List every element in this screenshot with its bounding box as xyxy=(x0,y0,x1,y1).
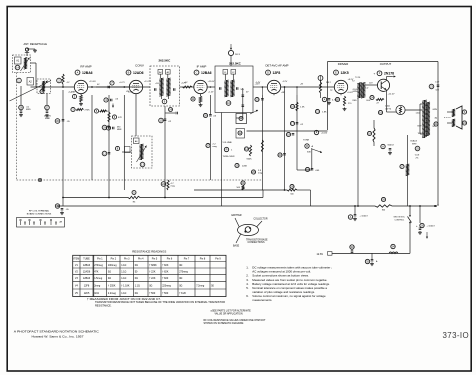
svg-text:+0.7V: +0.7V xyxy=(119,82,125,84)
wire from antenna line junction xyxy=(96,86,106,88)
trimmer box A2 xyxy=(27,78,34,86)
svg-text:7.2meg: 7.2meg xyxy=(196,284,205,287)
collector wire down xyxy=(386,90,388,112)
svg-text:1.1Ω: 1.1Ω xyxy=(121,264,126,267)
rod antenna dashed box xyxy=(13,55,31,73)
svg-text:12.6V: 12.6V xyxy=(317,253,324,256)
svg-text:5.: 5. xyxy=(246,286,249,290)
svg-text:Pin 2: Pin 2 xyxy=(111,258,117,261)
oscillator feedback resistor on B- line xyxy=(128,196,140,198)
A line terminal dot and x xyxy=(434,205,436,207)
item 13 circled xyxy=(140,162,145,167)
svg-text:12F8: 12F8 xyxy=(84,284,90,287)
oscillator coil winding xyxy=(141,144,143,160)
svg-text:TURN-OVER: TURN-OVER xyxy=(223,156,235,158)
item 8 circled small box xyxy=(115,146,119,150)
svg-text:+1.2V: +1.2V xyxy=(208,92,214,94)
tube V2 envelope xyxy=(129,80,142,93)
wire V1 plate to T1 xyxy=(87,86,150,88)
wire T1 secondary to V3 grid xyxy=(180,86,195,88)
svg-text:+11.6V: +11.6V xyxy=(89,81,96,83)
svg-text:Pin 1: Pin 1 xyxy=(97,258,103,261)
svg-text:1.1Ω: 1.1Ω xyxy=(121,277,126,280)
antenna tuning coil with slug arrow xyxy=(25,58,27,70)
wire x297 stub xyxy=(296,87,298,95)
svg-text:+12V: +12V xyxy=(181,83,187,85)
svg-text:VALUE OR APPLICATION: VALUE OR APPLICATION xyxy=(215,313,243,316)
RF coil terminal board box xyxy=(17,218,65,228)
svg-text:0Ω: 0Ω xyxy=(179,277,182,280)
svg-text:SW ON VOL: SW ON VOL xyxy=(394,217,406,219)
svg-text:CONTROL: CONTROL xyxy=(395,219,406,221)
item capacitor .02 xyxy=(286,132,290,136)
svg-text:BLU: BLU xyxy=(365,88,369,90)
svg-text:TONE: TONE xyxy=(303,140,310,142)
svg-text:1.5meg: 1.5meg xyxy=(94,277,103,280)
svg-text:Pin 7: Pin 7 xyxy=(184,258,190,261)
electrolytic 26 100mf xyxy=(420,223,424,227)
tube V4 12F8 designator xyxy=(266,70,271,75)
speaker xyxy=(453,109,455,116)
svg-text:A: A xyxy=(77,70,79,74)
resistance readings table grid xyxy=(73,255,226,296)
item 6 resistor 47K xyxy=(112,115,116,119)
svg-text:1.8K: 1.8K xyxy=(322,112,327,114)
T3 left capacitor xyxy=(219,87,221,90)
driver-output enclosing wires xyxy=(328,61,439,63)
driver plate electrolytic xyxy=(314,130,318,134)
svg-text:VOLUME: VOLUME xyxy=(223,142,233,144)
svg-text:Pin 5: Pin 5 xyxy=(152,258,158,261)
tube V3 envelope xyxy=(194,80,207,93)
T1 left capacitor xyxy=(154,88,156,91)
svg-text:A: A xyxy=(350,215,352,219)
mechanical tuning diagonal link xyxy=(10,81,52,102)
test point circle above 2nd IF xyxy=(228,50,233,55)
svg-text:+12V: +12V xyxy=(255,84,261,86)
svg-text:TRANSISTOR BASE: TRANSISTOR BASE xyxy=(246,238,268,241)
ground at receptacle xyxy=(27,48,35,50)
item resistor 560K xyxy=(244,147,248,151)
svg-text:GRN: GRN xyxy=(353,91,358,93)
svg-text:1.: 1. xyxy=(246,266,249,270)
svg-text:270meg: 270meg xyxy=(179,270,188,273)
svg-text:+11.6V: +11.6V xyxy=(208,81,215,83)
svg-text:† 820: † 820 xyxy=(162,277,169,280)
svg-text:47K: 47K xyxy=(118,117,122,119)
svg-text:† 560: † 560 xyxy=(149,292,156,295)
antenna coil A1 box xyxy=(15,57,22,64)
svg-text:470K: 470K xyxy=(104,111,110,113)
svg-text:1.1Ω: 1.1Ω xyxy=(121,292,126,295)
svg-text:0Ω: 0Ω xyxy=(135,292,138,295)
item 35 bypass capacitor xyxy=(365,259,369,263)
series resistor on 190 line xyxy=(290,184,294,188)
item 10b capacitor stub xyxy=(165,112,175,114)
svg-text:IF AMP: IF AMP xyxy=(197,65,207,69)
svg-text:0Ω: 0Ω xyxy=(149,284,152,287)
T1 right capacitor xyxy=(173,88,175,91)
item 27 trimmer capacitor xyxy=(45,105,50,110)
dashed AGC vertical at left xyxy=(16,73,18,181)
svg-text:0Ω: 0Ω xyxy=(179,264,182,267)
svg-text:12K5: 12K5 xyxy=(341,71,349,75)
item 14 circled xyxy=(15,65,20,70)
AVC resistor 2.2 meg xyxy=(206,143,210,147)
tube V5 12K5 designator xyxy=(334,70,339,75)
filter choke xyxy=(400,164,404,168)
svg-text:BASE: BASE xyxy=(233,245,240,248)
item resistor 470K xyxy=(94,109,98,113)
T3 item circled xyxy=(226,101,231,106)
svg-text:0Ω: 0Ω xyxy=(135,264,138,267)
V1 cathode resistor xyxy=(72,94,76,98)
svg-text:BLACK: BLACK xyxy=(411,140,418,143)
T3 right capacitor xyxy=(236,87,238,90)
tube V2 12AD6 designator xyxy=(126,70,131,75)
svg-text:CONNECTIONS: CONNECTIONS xyxy=(248,242,265,244)
V3 screen-det feed down xyxy=(221,113,223,207)
V4 plate decoupling vertical xyxy=(284,87,286,190)
V5 cathode resistor xyxy=(335,97,339,101)
item 10 capacitor on feed xyxy=(159,118,164,123)
wire grid column xyxy=(20,86,22,105)
wire T3 to V4 grid xyxy=(253,86,268,88)
svg-text:DRIVER: DRIVER xyxy=(338,62,349,66)
A plus bus line xyxy=(57,205,375,207)
svg-text:+10mf: +10mf xyxy=(321,133,328,135)
V1 screen feed down xyxy=(62,90,64,206)
svg-text:12AD6: 12AD6 xyxy=(133,71,144,75)
capacitor C22 at right xyxy=(429,84,434,89)
item resistor 270K under V1 xyxy=(71,107,75,111)
T3 trimmer boxes xyxy=(223,70,228,75)
svg-text:A PHOTOFACT STANDARD NOTATION: A PHOTOFACT STANDARD NOTATION SCHEMATIC xyxy=(14,330,100,334)
svg-text:12BA6: 12BA6 xyxy=(82,71,93,75)
svg-text:RED: RED xyxy=(353,100,358,102)
item resistor on x262 column xyxy=(261,140,263,152)
svg-text:12BA6: 12BA6 xyxy=(201,71,212,75)
item capacitor on x284 column xyxy=(278,153,282,157)
oscillator coil dashed box xyxy=(132,136,153,168)
svg-text:262.5: 262.5 xyxy=(235,54,241,56)
tube V1 12BA6 designator xyxy=(75,70,80,75)
V4 grid leak box xyxy=(236,129,245,139)
svg-text:ANT. RECEPTACLE: ANT. RECEPTACLE xyxy=(24,42,48,46)
svg-text:2.2meg: 2.2meg xyxy=(108,292,117,295)
svg-text:Pin 6: Pin 6 xyxy=(167,258,173,261)
svg-text:D: D xyxy=(267,70,269,74)
svg-text:† 82K: † 82K xyxy=(162,264,169,267)
svg-text:12AD6: 12AD6 xyxy=(83,270,91,273)
item 28 circled with capacitor xyxy=(19,105,24,110)
svg-text:MMF: MMF xyxy=(45,118,51,120)
item 21 resistor in lower box xyxy=(241,181,245,185)
AVC vertical wire xyxy=(209,95,211,115)
wire V3 plate to T2 xyxy=(207,86,215,88)
svg-text:OUTPUT: OUTPUT xyxy=(380,62,392,66)
svg-text:† 560: † 560 xyxy=(162,292,169,295)
tube V1 envelope xyxy=(74,80,87,93)
V4 column down xyxy=(261,95,263,190)
T3 primary coil xyxy=(226,80,228,97)
item 12 capacitor xyxy=(102,151,107,156)
svg-text:MMF: MMF xyxy=(117,129,122,131)
svg-text:270meg: 270meg xyxy=(94,264,103,267)
svg-text:2meg: 2meg xyxy=(94,284,101,287)
B minus bus line xyxy=(63,197,128,199)
1st IF transformer dashed box xyxy=(150,66,180,106)
item 22 resistor 4.7 meg xyxy=(161,182,166,187)
T3 secondary coil xyxy=(232,80,234,97)
wire T2 to transistor base xyxy=(365,84,378,86)
svg-text:220K: 220K xyxy=(242,166,248,168)
tube V3 12BA6 designator xyxy=(194,70,199,75)
item capacitor .05 under V1 xyxy=(104,98,108,102)
svg-text:C: C xyxy=(196,70,198,74)
svg-text:0Ω: 0Ω xyxy=(108,277,111,280)
wire x320 stub xyxy=(320,76,322,87)
svg-text:262.5KC: 262.5KC xyxy=(159,59,172,63)
svg-text:+: + xyxy=(374,72,376,76)
svg-text:R: R xyxy=(226,147,228,151)
resistor R18 vertical xyxy=(367,131,371,135)
svg-text:1.4Ω: 1.4Ω xyxy=(385,106,390,108)
svg-text:BOARD CONNECTIONS: BOARD CONNECTIONS xyxy=(27,212,52,215)
svg-text:RESISTANCE READINGS: RESISTANCE READINGS xyxy=(132,250,166,254)
T3 detector caps column xyxy=(242,88,244,112)
svg-text:RF AMP: RF AMP xyxy=(80,65,91,69)
electrolytic 500mf xyxy=(381,144,385,148)
svg-text:0Ω: 0Ω xyxy=(179,284,182,287)
svg-text:TO 26: TO 26 xyxy=(355,77,360,79)
transistor base eye symbol xyxy=(238,224,259,235)
item 31 capacitor at line start xyxy=(55,204,59,208)
antenna receptacle symbol xyxy=(25,48,28,51)
svg-text:270K: 270K xyxy=(85,110,91,112)
svg-text:TUBE: TUBE xyxy=(83,258,90,261)
svg-text:-1.2V: -1.2V xyxy=(282,81,288,83)
T1 item circled xyxy=(162,99,167,104)
wire thermistor to output transformer xyxy=(405,109,422,111)
electrolytic A 100mf on A line xyxy=(348,215,352,219)
svg-text:373-IO: 373-IO xyxy=(443,331,470,340)
svg-text:1.4Ω: 1.4Ω xyxy=(416,113,421,115)
circled C in tuning box xyxy=(40,90,44,94)
item 3.3 meg resistor xyxy=(251,170,255,174)
svg-text:1.5K: 1.5K xyxy=(300,107,305,109)
svg-text:Pin 8: Pin 8 xyxy=(200,258,206,261)
V2 cathode to coil wires xyxy=(135,95,137,136)
junction dot on AGC dashed line xyxy=(17,179,263,181)
svg-text:ITEM: ITEM xyxy=(73,258,79,261)
speaker connection dashes xyxy=(444,117,451,119)
svg-text:Pin 9: Pin 9 xyxy=(215,258,221,261)
svg-text:12K5: 12K5 xyxy=(84,292,90,295)
junction dots on A line xyxy=(435,205,437,207)
svg-text:RF COIL TERMINAL: RF COIL TERMINAL xyxy=(29,210,50,213)
item 34 fuse coil xyxy=(391,244,395,248)
RF tuning dashed box xyxy=(37,79,51,94)
svg-text:CW 74: CW 74 xyxy=(385,108,392,110)
svg-text:2%: 2% xyxy=(416,157,419,159)
T3 wiring top xyxy=(224,74,226,80)
svg-text:0Ω: 0Ω xyxy=(108,270,111,273)
svg-text:A: A xyxy=(382,144,384,148)
svg-text:1KΩ: 1KΩ xyxy=(94,292,99,295)
svg-text:-11.4V: -11.4V xyxy=(352,89,358,91)
item 29 capacitor xyxy=(102,125,107,130)
item 1 circled xyxy=(17,78,22,83)
svg-text:1.1Ω: 1.1Ω xyxy=(135,284,140,287)
svg-text:† 8.2K: † 8.2K xyxy=(179,292,186,295)
battery supply wire xyxy=(332,252,410,254)
T1 trimmer boxes xyxy=(158,70,163,75)
wire V1 line to V2 xyxy=(106,86,130,88)
svg-text:1.1Ω: 1.1Ω xyxy=(121,270,126,273)
wire det box to driver xyxy=(247,130,328,132)
svg-text:+11.7V: +11.7V xyxy=(144,81,151,83)
wire main line into V1 xyxy=(31,86,75,88)
svg-text:500mf: 500mf xyxy=(388,145,394,147)
svg-text:E: E xyxy=(335,70,337,74)
svg-text:+1Ω: +1Ω xyxy=(155,83,159,85)
svg-text:100meg: 100meg xyxy=(108,264,117,267)
box around det diode section xyxy=(236,114,247,124)
wire stub T3 bottom to column xyxy=(242,112,244,118)
wire vertical x124 xyxy=(123,95,125,190)
item 15 capacitor .005 xyxy=(305,167,309,171)
output transformer T3 winding xyxy=(424,100,426,138)
svg-text:COLLECTOR: COLLECTOR xyxy=(254,219,268,221)
svg-text:-6.8V: -6.8V xyxy=(128,92,133,94)
item 5 resistor 220K xyxy=(235,163,239,167)
svg-text:B: B xyxy=(128,70,130,74)
svg-text:R: R xyxy=(306,144,308,148)
svg-text:† 680K: † 680K xyxy=(149,264,157,267)
svg-text:12BA6: 12BA6 xyxy=(83,277,91,280)
AVC filter under V3 cap .05 xyxy=(203,113,207,117)
series grid resistor T1 to V3 xyxy=(183,86,193,88)
T1 bottom feed down xyxy=(164,106,166,198)
item below driver grid xyxy=(315,109,319,113)
svg-text:47K: 47K xyxy=(94,270,99,273)
item 24b circled near output transformer xyxy=(434,122,438,126)
svg-text:DET-AVC-AF AMP: DET-AVC-AF AMP xyxy=(265,64,288,68)
svg-text:T-CN: T-CN xyxy=(415,155,420,157)
svg-text:0Ω: 0Ω xyxy=(135,277,138,280)
svg-text:+ 100mf: + 100mf xyxy=(360,216,368,218)
svg-text:12F8: 12F8 xyxy=(273,71,281,75)
transistor Q1 envelope xyxy=(377,79,389,91)
svg-text:560K: 560K xyxy=(247,159,253,161)
svg-text:MFD: MFD xyxy=(26,109,31,111)
tube V5 envelope xyxy=(334,80,347,93)
svg-text:S: S xyxy=(464,110,466,114)
svg-text:WHT: WHT xyxy=(412,143,417,145)
svg-text:-1V: -1V xyxy=(66,82,70,84)
item capacitor under V4 plate xyxy=(255,97,259,101)
svg-text:RESISTANCE.: RESISTANCE. xyxy=(95,305,112,308)
svg-text:GRN: GRN xyxy=(433,109,438,111)
svg-text:† 82K: † 82K xyxy=(162,270,169,273)
svg-text:SHOWN ON SCHEMATIC DIAGRAM.: SHOWN ON SCHEMATIC DIAGRAM. xyxy=(204,322,245,325)
T1 wiring xyxy=(150,78,162,87)
osc coil trimmer box A6 xyxy=(134,138,140,144)
svg-text:6.: 6. xyxy=(246,294,249,298)
svg-text:5mf: 5mf xyxy=(436,90,440,92)
svg-text:Pin 3: Pin 3 xyxy=(124,258,130,261)
2nd IF transformer box xyxy=(215,66,253,113)
svg-text:+ 100mf: + 100mf xyxy=(427,226,435,228)
item 33 spark plate capacitor xyxy=(350,245,354,249)
T1 primary coil xyxy=(161,78,163,96)
driver section vertical x311 xyxy=(311,148,313,170)
svg-text:† 22K: † 22K xyxy=(149,277,156,280)
transistor emitter top wire xyxy=(386,77,388,81)
AF coupling column components xyxy=(296,95,298,170)
svg-text:TRANSISTOR RESISTANCE NOT TAKE: TRANSISTOR RESISTANCE NOT TAKEN BECAUSE … xyxy=(95,301,225,304)
V3 cathode resistor to ground xyxy=(191,97,195,101)
V2 oscillator grid components column xyxy=(108,95,110,198)
item 2 circled grid resistor xyxy=(57,78,62,83)
tone capacitor circled xyxy=(290,121,294,125)
svg-text:EMITTER: EMITTER xyxy=(232,215,242,217)
svg-text:12BA6: 12BA6 xyxy=(83,264,91,267)
svg-text:+12.2V: +12.2V xyxy=(388,94,396,96)
tube V4 envelope xyxy=(267,80,280,93)
item 25 circled xyxy=(415,146,420,151)
svg-text:2N178: 2N178 xyxy=(384,72,394,76)
svg-text:† 22K: † 22K xyxy=(149,270,156,273)
svg-text:measurements.: measurements. xyxy=(252,298,272,302)
svg-text:220meg: 220meg xyxy=(162,284,171,287)
svg-text:Pin 4: Pin 4 xyxy=(138,258,144,261)
svg-text:50h: 50h xyxy=(241,89,244,91)
wire antenna to RF grid xyxy=(31,62,37,64)
item on AF column 1 - resistor 1.5K xyxy=(290,104,294,108)
junction dots main line xyxy=(91,86,93,88)
item 30 screen bypass capacitor xyxy=(55,119,60,124)
driver grid test point xyxy=(318,76,323,81)
svg-text:† 1.18K: † 1.18K xyxy=(121,284,130,287)
item 7 grid cap xyxy=(110,81,114,85)
item capacitor 680MMF xyxy=(106,126,110,130)
T1 secondary coil xyxy=(168,78,170,96)
svg-text:A: A xyxy=(324,97,326,101)
output transformer left leads xyxy=(420,103,423,105)
wire x358 vertical xyxy=(357,98,359,206)
svg-text:BLK: BLK xyxy=(367,100,371,102)
driver grid capacitor 4.7mf xyxy=(322,97,326,101)
thermistor circle xyxy=(396,105,405,114)
svg-text:50K: 50K xyxy=(307,152,311,154)
junction dots on main line xyxy=(210,86,212,88)
series resistor on A line xyxy=(381,197,385,201)
terminal board glyphs xyxy=(20,219,22,221)
svg-text:+1.2V: +1.2V xyxy=(70,91,76,93)
wire vertical x92 xyxy=(91,95,93,180)
svg-text:Howard W. Sams & Co., Inc. 195: Howard W. Sams & Co., Inc. 1957 xyxy=(32,335,84,339)
svg-text:CONV: CONV xyxy=(135,64,144,68)
driver transformer T2 xyxy=(359,83,361,99)
wire V4 column stub to main line xyxy=(261,87,263,95)
wire V4 plate toward driver xyxy=(280,86,334,88)
choke feed wire xyxy=(407,135,409,164)
output emitter resistor xyxy=(370,95,374,99)
svg-text:† 255K: † 255K xyxy=(108,284,116,287)
